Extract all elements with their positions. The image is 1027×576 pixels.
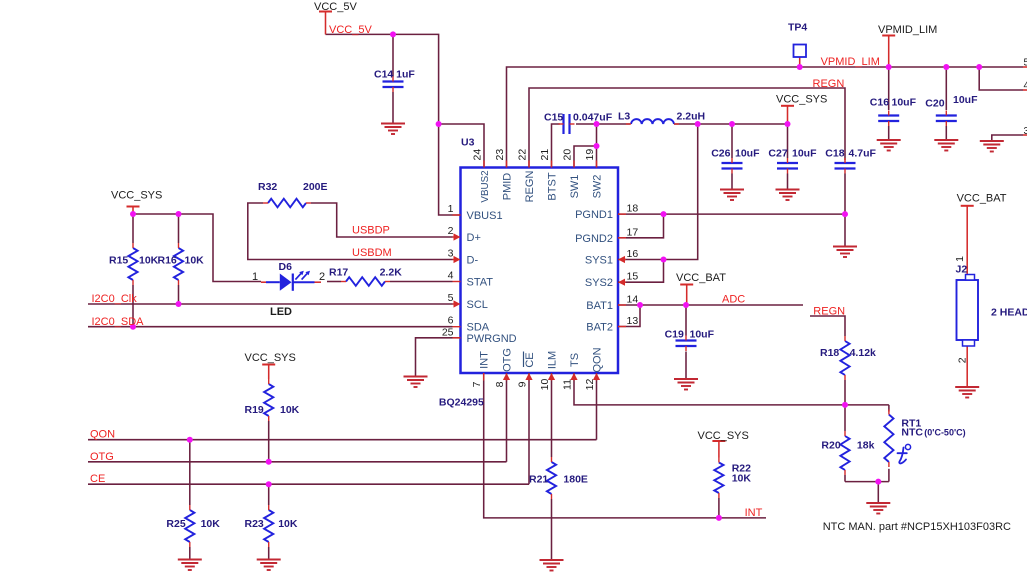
svg-text:(0'C-50'C): (0'C-50'C): [924, 428, 965, 438]
svg-text:REGN: REGN: [813, 306, 845, 318]
svg-text:R21: R21: [529, 474, 548, 486]
svg-text:PMID: PMID: [502, 173, 514, 201]
svg-text:VCC_BAT: VCC_BAT: [676, 272, 726, 284]
svg-text:J2: J2: [956, 264, 968, 276]
svg-text:5: 5: [448, 292, 454, 304]
svg-text:QON: QON: [90, 429, 115, 441]
svg-text:INT: INT: [479, 351, 491, 369]
svg-text:CE: CE: [90, 473, 105, 485]
svg-text:USBDM: USBDM: [352, 247, 392, 259]
svg-text:VCC_SYS: VCC_SYS: [245, 352, 296, 364]
svg-text:C27: C27: [768, 148, 787, 160]
svg-text:10uF: 10uF: [792, 148, 817, 160]
svg-text:NTC: NTC: [901, 427, 923, 439]
svg-text:22: 22: [517, 149, 529, 161]
svg-text:1: 1: [252, 271, 258, 283]
svg-text:10uF: 10uF: [690, 329, 715, 341]
svg-text:10K: 10K: [185, 255, 205, 267]
svg-text:I2C0_Clk: I2C0_Clk: [92, 293, 138, 305]
svg-text:R23: R23: [245, 518, 264, 530]
svg-text:23: 23: [494, 149, 506, 161]
svg-text:10K: 10K: [732, 473, 752, 485]
svg-text:VCC_BAT: VCC_BAT: [957, 193, 1007, 205]
svg-text:R17: R17: [329, 267, 348, 279]
svg-text:SYS1: SYS1: [585, 255, 613, 267]
svg-text:1: 1: [954, 256, 966, 262]
svg-text:ADC: ADC: [722, 294, 745, 306]
svg-text:13: 13: [627, 315, 639, 327]
svg-text:9: 9: [517, 381, 529, 387]
svg-text:D6: D6: [279, 261, 293, 273]
svg-text:2.2K: 2.2K: [380, 267, 403, 279]
svg-text:VBUS2: VBUS2: [480, 170, 491, 202]
svg-text:STAT: STAT: [467, 277, 494, 289]
svg-text:R15: R15: [109, 255, 128, 267]
svg-text:VCC_5V: VCC_5V: [314, 1, 357, 13]
svg-text:10uF: 10uF: [892, 97, 917, 109]
svg-text:VPMID_LIM: VPMID_LIM: [821, 56, 880, 68]
svg-text:10: 10: [539, 379, 551, 391]
svg-text:L3: L3: [618, 111, 630, 123]
svg-text:6: 6: [448, 315, 454, 327]
svg-text:20: 20: [562, 149, 574, 161]
svg-text:BAT2: BAT2: [586, 322, 613, 334]
svg-text:TP4: TP4: [788, 22, 807, 34]
svg-text:SW1: SW1: [569, 175, 581, 199]
svg-text:CE: CE: [524, 352, 536, 367]
svg-text:C20: C20: [925, 98, 944, 110]
svg-text:VBUS1: VBUS1: [467, 210, 503, 222]
svg-text:REGN: REGN: [813, 78, 845, 90]
svg-text:0.047uF: 0.047uF: [573, 112, 613, 124]
svg-text:4.7uF: 4.7uF: [849, 148, 877, 160]
svg-text:C18: C18: [825, 148, 844, 160]
svg-text:19: 19: [584, 149, 596, 161]
svg-text:2: 2: [448, 225, 454, 237]
svg-text:2: 2: [957, 357, 969, 363]
svg-text:1: 1: [448, 203, 454, 215]
svg-text:15: 15: [627, 271, 639, 283]
svg-text:R25: R25: [166, 518, 185, 530]
svg-text:2 HEADER: 2 HEADER: [991, 307, 1027, 319]
svg-text:R20: R20: [821, 440, 840, 452]
svg-text:5: 5: [1024, 58, 1027, 69]
svg-text:4.12k: 4.12k: [850, 347, 876, 359]
svg-text:D+: D+: [467, 232, 481, 244]
svg-text:INT: INT: [745, 507, 763, 519]
svg-text:REGN: REGN: [524, 171, 536, 203]
svg-text:24: 24: [472, 149, 484, 161]
svg-text:BQ24295: BQ24295: [439, 397, 484, 409]
svg-text:25: 25: [442, 327, 454, 339]
svg-text:PGND2: PGND2: [575, 233, 613, 245]
svg-text:U3: U3: [461, 137, 475, 149]
svg-text:I2C0_SDA: I2C0_SDA: [92, 316, 145, 328]
svg-text:18k: 18k: [857, 440, 875, 452]
svg-text:R16: R16: [158, 255, 177, 267]
svg-text:VCC_SYS: VCC_SYS: [698, 430, 749, 442]
svg-text:QON: QON: [592, 347, 604, 372]
svg-text:C14 1uF: C14 1uF: [374, 69, 415, 81]
svg-text:LED: LED: [270, 306, 292, 318]
svg-text:11: 11: [562, 379, 574, 390]
svg-text:200E: 200E: [303, 181, 328, 193]
svg-text:16: 16: [627, 248, 639, 260]
svg-text:2.2uH: 2.2uH: [677, 111, 706, 123]
svg-text:C15: C15: [544, 112, 563, 124]
svg-text:10uF: 10uF: [953, 94, 978, 106]
svg-text:4: 4: [448, 270, 454, 282]
svg-text:VCC_SYS: VCC_SYS: [111, 190, 162, 202]
svg-text:SW2: SW2: [592, 175, 604, 199]
svg-text:10uF: 10uF: [735, 148, 760, 160]
svg-text:10K: 10K: [139, 255, 159, 267]
svg-text:7: 7: [471, 381, 483, 387]
svg-text:10K: 10K: [280, 404, 300, 416]
svg-text:4: 4: [1024, 81, 1027, 92]
svg-text:12: 12: [584, 379, 596, 391]
svg-text:BAT1: BAT1: [586, 300, 613, 312]
svg-text:BTST: BTST: [547, 172, 559, 200]
svg-text:R18: R18: [820, 347, 839, 359]
svg-text:3: 3: [448, 248, 454, 260]
svg-text:SYS2: SYS2: [585, 277, 613, 289]
svg-text:C16: C16: [870, 97, 889, 109]
svg-text:3: 3: [1024, 126, 1027, 137]
svg-text:PGND1: PGND1: [575, 209, 613, 221]
svg-text:NTC MAN. part #NCP15XH103F03RC: NTC MAN. part #NCP15XH103F03RC: [823, 521, 1011, 533]
svg-text:2: 2: [319, 271, 325, 283]
svg-text:OTG: OTG: [502, 348, 514, 372]
svg-text:ILM: ILM: [547, 351, 559, 369]
svg-text:21: 21: [539, 149, 551, 161]
svg-text:TS: TS: [569, 353, 581, 367]
svg-text:D-: D-: [467, 255, 479, 267]
svg-text:R32: R32: [258, 181, 277, 193]
svg-text:17: 17: [627, 226, 639, 238]
svg-text:VCC_5V: VCC_5V: [329, 24, 372, 36]
svg-text:VCC_SYS: VCC_SYS: [776, 94, 827, 106]
svg-text:10K: 10K: [278, 518, 298, 530]
svg-text:10K: 10K: [201, 518, 221, 530]
svg-text:8: 8: [494, 381, 506, 387]
svg-text:C19: C19: [665, 329, 684, 341]
svg-text:180E: 180E: [563, 474, 588, 486]
svg-text:OTG: OTG: [90, 451, 114, 463]
svg-text:SCL: SCL: [467, 299, 488, 311]
svg-text:USBDP: USBDP: [352, 225, 390, 237]
svg-text:C26: C26: [711, 148, 730, 160]
svg-text:PWRGND: PWRGND: [467, 333, 517, 345]
svg-text:R19: R19: [245, 404, 264, 416]
svg-text:SDA: SDA: [467, 322, 490, 334]
svg-text:18: 18: [627, 203, 639, 215]
svg-text:VPMID_LIM: VPMID_LIM: [878, 24, 937, 36]
svg-text:14: 14: [627, 294, 639, 306]
